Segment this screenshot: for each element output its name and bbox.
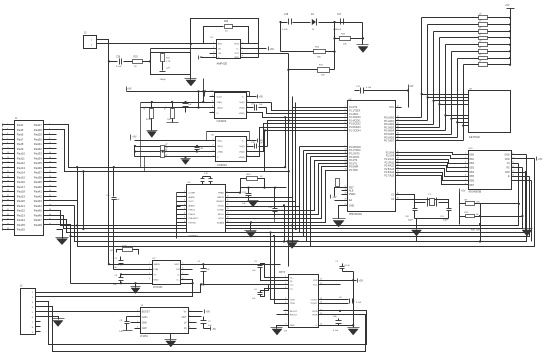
svg-text:+5V: +5V: [132, 136, 137, 139]
svg-text:Pad43: Pad43: [34, 199, 43, 203]
svg-text:5: 5: [465, 170, 466, 172]
svg-text:8: 8: [247, 111, 248, 113]
svg-text:VDD: VDD: [313, 280, 318, 282]
svg-text:BOOST: BOOST: [142, 311, 151, 313]
svg-text:P2.5/A13: P2.5/A13: [384, 168, 394, 171]
svg-text:11: 11: [7, 147, 9, 149]
svg-text:3: 3: [465, 162, 466, 164]
svg-text:2: 2: [345, 109, 346, 111]
svg-text:33: 33: [7, 200, 9, 202]
svg-text:P2.1/A9: P2.1/A9: [386, 155, 395, 158]
svg-text:SCLK: SCLK: [218, 218, 224, 220]
svg-text:7: 7: [465, 179, 466, 181]
svg-text:2: 2: [184, 195, 185, 197]
svg-text:43: 43: [7, 223, 9, 225]
svg-text:Va(2): Va(2): [239, 102, 244, 104]
svg-text:SHDN: SHDN: [154, 264, 161, 266]
svg-text:42: 42: [49, 219, 51, 221]
svg-text:470K: 470K: [146, 119, 151, 121]
svg-text:15: 15: [320, 313, 322, 315]
svg-text:PSEN: PSEN: [349, 194, 356, 196]
svg-text:REFIN: REFIN: [217, 197, 224, 199]
svg-text:44: 44: [49, 223, 51, 225]
svg-text:+5V: +5V: [259, 96, 264, 99]
svg-text:13: 13: [7, 152, 9, 154]
svg-text:Pad36: Pad36: [34, 166, 43, 170]
svg-text:CAP+: CAP+: [142, 316, 149, 319]
svg-text:20: 20: [345, 199, 347, 201]
svg-text:Pad15: Pad15: [17, 175, 26, 179]
svg-text:RST CIR: RST CIR: [471, 230, 480, 232]
svg-text:T2IN: T2IN: [290, 303, 295, 305]
svg-text:Pad38: Pad38: [34, 175, 43, 179]
svg-text:+5V: +5V: [332, 196, 337, 199]
svg-text:25: 25: [397, 123, 399, 125]
svg-text:+IN: +IN: [218, 53, 222, 55]
svg-text:12: 12: [49, 147, 51, 149]
svg-text:1: 1: [212, 95, 213, 97]
svg-text:P2.7/A15: P2.7/A15: [384, 175, 394, 178]
svg-text:35: 35: [7, 204, 9, 206]
svg-text:M/LT: M/LT: [175, 264, 180, 266]
svg-text:1: 1: [213, 42, 214, 44]
svg-text:+5V: +5V: [505, 4, 510, 7]
svg-text:V-: V-: [217, 157, 219, 159]
svg-text:P1.1/T2EX: P1.1/T2EX: [349, 111, 361, 113]
svg-text:21: 21: [345, 204, 347, 206]
svg-text:P3.1/TXD0: P3.1/TXD0: [349, 150, 361, 152]
svg-text:25: 25: [7, 181, 9, 183]
svg-text:0.1uF: 0.1uF: [116, 66, 122, 68]
svg-text:GND: GND: [154, 279, 159, 281]
svg-text:Pad44: Pad44: [34, 204, 43, 208]
svg-text:8: 8: [285, 313, 286, 315]
svg-text:Pad6: Pad6: [17, 133, 24, 137]
svg-text:45: 45: [7, 228, 9, 230]
svg-text:3: 3: [149, 273, 150, 275]
svg-text:1uF: 1uF: [113, 284, 117, 286]
svg-text:RG1: RG1: [218, 44, 223, 46]
svg-text:T1IN: T1IN: [290, 300, 295, 302]
svg-text:Pad20: Pad20: [17, 199, 26, 203]
svg-text:37: 37: [397, 171, 399, 173]
svg-text:2: 2: [285, 279, 286, 281]
svg-text:P2.0/A8: P2.0/A8: [386, 151, 395, 154]
svg-text:PEAK: PEAK: [218, 192, 224, 195]
svg-text:4: 4: [149, 278, 150, 280]
svg-text:Pad13: Pad13: [17, 166, 26, 170]
svg-text:1: 1: [7, 124, 8, 126]
svg-text:11: 11: [345, 152, 347, 154]
svg-text:P0.4/AD4: P0.4/AD4: [384, 130, 395, 133]
svg-text:Va(2): Va(2): [239, 146, 244, 148]
svg-text:P0.5/AD5: P0.5/AD5: [384, 133, 395, 136]
svg-text:1: 1: [149, 263, 150, 265]
svg-text:V-: V-: [315, 325, 317, 327]
svg-text:Pad9: Pad9: [17, 147, 24, 151]
svg-text:Pad32: Pad32: [34, 147, 43, 151]
svg-text:1uF: 1uF: [113, 267, 117, 269]
svg-text:41: 41: [7, 219, 9, 221]
svg-text:3: 3: [285, 283, 286, 285]
svg-text:19: 19: [345, 192, 347, 194]
svg-text:12: 12: [345, 155, 347, 157]
svg-text:27: 27: [397, 129, 399, 131]
svg-text:10: 10: [512, 157, 514, 159]
svg-text:8: 8: [184, 221, 185, 223]
svg-text:VCC: VCC: [389, 107, 394, 109]
svg-text:KEYPAD: KEYPAD: [469, 135, 480, 139]
svg-text:2: 2: [49, 124, 50, 126]
svg-text:16: 16: [320, 324, 322, 326]
svg-text:RXTX: RXTX: [279, 272, 286, 274]
svg-text:P0.0/AD0: P0.0/AD0: [384, 117, 395, 120]
svg-text:8: 8: [247, 155, 248, 157]
svg-text:P3.3/INT1: P3.3/INT1: [349, 157, 360, 159]
svg-text:+IN(1): +IN(1): [217, 107, 223, 109]
svg-text:6: 6: [285, 302, 286, 304]
svg-text:P2.3/A11: P2.3/A11: [385, 161, 395, 164]
svg-text:C18: C18: [284, 14, 289, 16]
svg-text:0.1uF: 0.1uF: [345, 265, 351, 267]
svg-text:13: 13: [345, 159, 347, 161]
svg-text:C28: C28: [116, 57, 121, 59]
svg-text:7: 7: [184, 217, 185, 219]
svg-text:0.1uF: 0.1uF: [356, 302, 362, 304]
svg-text:P89C51RD2: P89C51RD2: [349, 214, 363, 216]
svg-text:Pad47: Pad47: [34, 218, 43, 222]
svg-text:CS3004: CS3004: [217, 119, 227, 123]
svg-text:10K: 10K: [317, 57, 321, 59]
svg-text:3: 3: [345, 112, 346, 114]
svg-text:4: 4: [49, 128, 50, 130]
svg-text:3: 3: [212, 106, 213, 108]
svg-text:6: 6: [49, 133, 50, 135]
svg-text:39: 39: [397, 193, 399, 195]
svg-text:5: 5: [7, 133, 8, 135]
svg-text:5: 5: [184, 208, 185, 210]
svg-text:P0.7/AD7: P0.7/AD7: [384, 140, 395, 143]
svg-text:6: 6: [465, 175, 466, 177]
svg-text:40: 40: [397, 198, 399, 200]
svg-text:3: 3: [137, 321, 138, 323]
svg-text:14: 14: [512, 175, 514, 177]
svg-text:Pad12: Pad12: [17, 161, 26, 165]
svg-text:1: 1: [345, 106, 346, 108]
svg-text:17: 17: [345, 186, 347, 188]
svg-text:24: 24: [49, 176, 51, 178]
svg-text:1.7K: 1.7K: [166, 61, 171, 63]
svg-text:28: 28: [49, 185, 51, 187]
svg-text:3: 3: [7, 128, 8, 130]
svg-text:C17: C17: [337, 14, 342, 16]
svg-text:P0.1/AD1: P0.1/AD1: [384, 120, 395, 123]
svg-text:6: 6: [182, 268, 183, 270]
svg-text:P0.6/AD6: P0.6/AD6: [384, 136, 395, 139]
svg-text:C1-: C1-: [290, 281, 294, 283]
svg-text:10K: 10K: [321, 75, 325, 77]
svg-text:7: 7: [242, 52, 243, 54]
svg-text:1: 1: [285, 276, 286, 278]
svg-text:3: 3: [213, 52, 214, 54]
svg-text:17: 17: [7, 162, 9, 164]
svg-text:LT1054: LT1054: [140, 336, 148, 338]
svg-text:-IN(2): -IN(2): [239, 107, 245, 109]
svg-text:RG2: RG2: [235, 44, 240, 46]
svg-text:11: 11: [512, 162, 514, 164]
svg-text:6: 6: [247, 100, 248, 102]
svg-text:7: 7: [247, 150, 248, 152]
svg-text:AMP02E: AMP02E: [217, 62, 228, 66]
svg-text:2: 2: [137, 315, 138, 317]
svg-text:EA: EA: [349, 199, 353, 202]
svg-text:+5V: +5V: [270, 48, 275, 51]
svg-text:36: 36: [49, 204, 51, 206]
svg-text:Pad37: Pad37: [34, 171, 43, 175]
svg-text:V-: V-: [218, 57, 220, 59]
svg-text:31: 31: [397, 151, 399, 153]
svg-text:+5V: +5V: [461, 190, 466, 193]
svg-text:Pad22: Pad22: [17, 209, 26, 213]
svg-text:6: 6: [242, 47, 243, 49]
svg-text:2: 2: [213, 47, 214, 49]
svg-text:20: 20: [49, 166, 51, 168]
svg-text:GND: GND: [349, 206, 354, 208]
svg-text:30pF: 30pF: [443, 220, 449, 222]
svg-text:2: 2: [213, 144, 214, 146]
svg-text:27: 27: [7, 185, 9, 187]
svg-text:RST: RST: [349, 187, 354, 189]
svg-text:Pad14: Pad14: [17, 171, 26, 175]
svg-text:4: 4: [285, 287, 286, 289]
svg-text:-IN(2): -IN(2): [239, 151, 245, 153]
svg-text:8: 8: [182, 278, 183, 280]
svg-text:5: 5: [189, 310, 190, 312]
svg-text:1: 1: [213, 139, 214, 141]
svg-text:21: 21: [7, 171, 9, 173]
svg-text:3: 3: [184, 200, 185, 202]
svg-text:0.1uF: 0.1uF: [282, 29, 288, 31]
svg-text:10K: 10K: [343, 44, 347, 46]
svg-text:30pF: 30pF: [408, 220, 414, 222]
svg-text:OUT: OUT: [182, 317, 187, 319]
svg-text:0.1uF: 0.1uF: [278, 210, 284, 212]
svg-text:35: 35: [397, 164, 399, 166]
svg-text:3: 3: [213, 150, 214, 152]
svg-text:CS3004: CS3004: [217, 163, 227, 167]
svg-text:Pad25: Pad25: [17, 223, 26, 227]
svg-text:Pad23: Pad23: [17, 213, 26, 217]
svg-text:C1+: C1+: [290, 278, 295, 280]
svg-text:DB7: DB7: [470, 185, 475, 187]
svg-text:15: 15: [7, 157, 9, 159]
svg-text:COMP: COMP: [189, 193, 196, 195]
svg-text:O-: O-: [177, 274, 180, 276]
svg-text:40: 40: [49, 214, 51, 216]
svg-text:Pad28: Pad28: [34, 128, 43, 132]
svg-text:+IN(2): +IN(2): [238, 113, 244, 115]
svg-text:-5V: -5V: [199, 56, 203, 59]
svg-text:13: 13: [227, 208, 229, 210]
svg-text:P1.2/ECI: P1.2/ECI: [349, 114, 359, 116]
svg-text:+5V: +5V: [359, 279, 364, 282]
svg-text:5: 5: [247, 95, 248, 97]
svg-text:Pad48: Pad48: [34, 223, 43, 227]
svg-text:16: 16: [49, 157, 51, 159]
svg-text:12: 12: [227, 204, 229, 206]
svg-text:26: 26: [49, 181, 51, 183]
svg-text:OUT: OUT: [234, 53, 239, 55]
svg-text:P1.4/CEX1: P1.4/CEX1: [349, 120, 361, 122]
svg-text:DB1: DB1: [470, 159, 475, 161]
svg-text:R1IN: R1IN: [313, 311, 318, 313]
svg-text:AGND: AGND: [189, 204, 196, 207]
svg-text:39: 39: [7, 214, 9, 216]
svg-text:P1.3/CEX0: P1.3/CEX0: [349, 117, 361, 119]
svg-text:Pad35: Pad35: [34, 161, 43, 165]
svg-text:5: 5: [182, 263, 183, 265]
svg-text:10: 10: [227, 195, 229, 197]
svg-text:5: 5: [285, 298, 286, 300]
svg-text:4: 4: [137, 326, 138, 328]
svg-text:10: 10: [49, 143, 51, 145]
svg-text:12: 12: [512, 166, 514, 168]
svg-text:Pad26: Pad26: [17, 228, 26, 232]
svg-text:-IN: -IN: [218, 49, 221, 51]
svg-text:18: 18: [345, 189, 347, 191]
svg-text:Pad24: Pad24: [17, 218, 26, 222]
svg-text:24: 24: [397, 119, 399, 121]
svg-text:12: 12: [320, 298, 322, 300]
svg-text:7: 7: [285, 309, 286, 311]
svg-text:DB2: DB2: [470, 163, 475, 165]
svg-text:8: 8: [189, 326, 190, 328]
svg-text:AGND: AGND: [189, 196, 196, 199]
svg-text:11: 11: [320, 283, 322, 285]
svg-text:P2.4/A12: P2.4/A12: [384, 165, 394, 168]
svg-text:22: 22: [397, 106, 399, 108]
svg-text:5: 5: [242, 42, 243, 44]
svg-text:P3.5/T1: P3.5/T1: [349, 163, 358, 165]
svg-text:PSELECT: PSELECT: [189, 218, 200, 220]
svg-text:DB4: DB4: [470, 172, 475, 174]
svg-text:11: 11: [227, 200, 229, 202]
svg-text:9: 9: [285, 324, 286, 326]
svg-text:Pad10: Pad10: [17, 152, 26, 156]
svg-text:Pad29: Pad29: [34, 133, 43, 137]
svg-text:14: 14: [227, 212, 229, 214]
svg-text:P3.0/RXD0: P3.0/RXD0: [349, 147, 361, 149]
svg-text:C2+: C2+: [290, 284, 295, 286]
svg-text:Pad41: Pad41: [34, 190, 43, 194]
svg-text:+IN(1): +IN(1): [217, 151, 223, 153]
svg-text:7: 7: [345, 126, 346, 128]
svg-text:R22: R22: [224, 21, 229, 23]
svg-text:DB5: DB5: [470, 176, 475, 178]
svg-text:LTC1563: LTC1563: [153, 287, 163, 289]
svg-text:T1OUT: T1OUT: [310, 300, 318, 302]
svg-text:23: 23: [7, 176, 9, 178]
svg-text:4: 4: [345, 116, 346, 118]
svg-text:P2.6/A14: P2.6/A14: [384, 171, 394, 174]
svg-text:5: 5: [247, 139, 248, 141]
svg-text:34: 34: [397, 161, 399, 163]
svg-text:P3.2/INT0: P3.2/INT0: [349, 154, 360, 156]
svg-text:37: 37: [7, 209, 9, 211]
svg-text:18: 18: [49, 162, 51, 164]
svg-text:DVDD: DVDD: [218, 205, 225, 207]
svg-text:23: 23: [397, 116, 399, 118]
svg-text:R2OUT: R2OUT: [290, 314, 298, 316]
svg-text:GND: GND: [504, 155, 509, 157]
svg-text:6: 6: [247, 144, 248, 146]
svg-text:6: 6: [184, 212, 185, 214]
svg-text:14: 14: [345, 162, 347, 164]
svg-text:16: 16: [345, 169, 347, 171]
svg-text:ALE: ALE: [349, 190, 354, 193]
svg-text:Pad4: Pad4: [17, 123, 24, 127]
svg-text:6: 6: [345, 122, 346, 124]
svg-text:38: 38: [397, 174, 399, 176]
svg-text:Pad17: Pad17: [17, 185, 26, 189]
svg-text:V-: V-: [217, 113, 219, 115]
svg-text:0.1uF: 0.1uF: [366, 87, 372, 89]
svg-text:4: 4: [184, 204, 185, 206]
svg-text:GND: GND: [290, 325, 295, 327]
svg-text:8: 8: [345, 129, 346, 131]
svg-text:2: 2: [212, 100, 213, 102]
svg-text:R2IN: R2IN: [313, 314, 318, 316]
svg-text:1: 1: [184, 191, 185, 193]
svg-text:Pad18: Pad18: [17, 190, 26, 194]
svg-text:2: 2: [149, 268, 150, 270]
svg-text:ADG408/DB: ADG408/DB: [469, 191, 482, 194]
svg-text:Pad46: Pad46: [34, 213, 43, 217]
svg-text:P1.5/CEX2: P1.5/CEX2: [349, 124, 361, 126]
svg-text:7: 7: [7, 138, 8, 140]
svg-text:10: 10: [345, 149, 347, 151]
svg-text:Va(1): Va(1): [217, 96, 222, 98]
svg-text:-IN(1): -IN(1): [217, 146, 223, 148]
svg-text:CAP-: CAP-: [142, 327, 148, 330]
svg-text:IOUT: IOUT: [189, 201, 195, 203]
svg-text:14: 14: [320, 309, 322, 311]
svg-text:26: 26: [397, 126, 399, 128]
svg-text:SDATA: SDATA: [217, 221, 225, 224]
svg-text:33: 33: [397, 158, 399, 160]
svg-text:7: 7: [247, 106, 248, 108]
svg-text:YIN: YIN: [176, 269, 180, 271]
svg-text:Pad34: Pad34: [34, 156, 43, 160]
svg-text:30: 30: [397, 139, 399, 141]
svg-text:7: 7: [182, 273, 183, 275]
svg-text:Pad42: Pad42: [34, 194, 43, 198]
svg-text:38: 38: [49, 209, 51, 211]
svg-text:DGND: DGND: [217, 210, 224, 212]
svg-text:VDD: VDD: [505, 159, 510, 161]
svg-text:1uF: 1uF: [119, 331, 123, 333]
svg-text:AD9832: AD9832: [188, 234, 198, 238]
svg-text:Pad7: Pad7: [17, 137, 24, 141]
svg-text:PGB: PGB: [154, 269, 159, 271]
svg-text:RESET: RESET: [217, 201, 225, 203]
svg-text:T2OUT: T2OUT: [310, 303, 318, 305]
svg-text:1: 1: [137, 310, 138, 312]
svg-text:1: 1: [465, 153, 466, 155]
svg-text:9: 9: [7, 143, 8, 145]
svg-text:+5V: +5V: [127, 88, 132, 91]
svg-text:19: 19: [7, 166, 9, 168]
